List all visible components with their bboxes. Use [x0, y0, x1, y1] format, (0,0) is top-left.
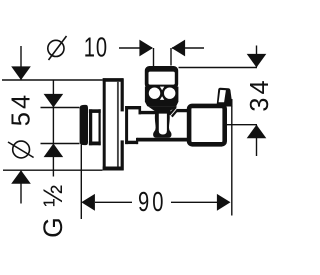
- valve head (bonnet) outer: [145, 66, 178, 89]
- extension line right: [231, 99, 233, 216]
- connector nut bottom edge: [89, 141, 101, 145]
- dim line top segment: [20, 46, 22, 80]
- diameter symbol: [48, 36, 67, 60]
- body tube top edge left: [139, 111, 156, 114]
- dim line: [52, 81, 54, 177]
- arrow pointing right at x=153: [139, 40, 153, 57]
- extension line top: [41, 107, 80, 109]
- body collar left edge: [125, 106, 128, 144]
- flange right edge lower: [121, 140, 124, 170]
- arrow pointing up at y=124.7: [247, 125, 267, 139]
- handle lever top face (white): [219, 90, 226, 102]
- svg-text:34: 34: [246, 77, 274, 111]
- extension line top: [179, 67, 258, 69]
- svg-text:9: 9: [138, 187, 149, 218]
- outlet block: [189, 106, 225, 144]
- valve head inner face: [149, 72, 175, 85]
- flange shading line: [117, 82, 119, 167]
- body tube top edge right: [169, 111, 171, 114]
- diameter symbol rotated (left): [8, 141, 34, 158]
- svg-text:0: 0: [152, 187, 163, 218]
- dim line bottom segment: [256, 125, 258, 156]
- extension line top: [2, 79, 103, 81]
- svg-text:G ½: G ½: [38, 183, 68, 238]
- chamfer diagonal inner: [169, 107, 176, 115]
- body bottom edge: [137, 138, 189, 142]
- chamfer diagonal outer: [172, 110, 178, 117]
- white notch top: [160, 87, 164, 91]
- arrow pointing left at x=81.3: [81, 194, 95, 211]
- svg-text:54: 54: [8, 92, 36, 126]
- body collar step top: [139, 106, 142, 114]
- body right section top edge: [176, 109, 189, 112]
- arrow pointing down at y=107.5: [44, 94, 64, 108]
- flange right edge upper: [121, 78, 124, 111]
- dim line right segment: [172, 47, 204, 49]
- stem slot: [159, 114, 167, 135]
- extension line bottom: [3, 169, 103, 171]
- arrow pointing left at x=171.5: [172, 40, 186, 57]
- extension line bottom: [225, 124, 257, 126]
- arrow pointing up at y=170.2: [11, 170, 31, 184]
- connector nut top edge: [89, 109, 101, 113]
- connector nut left edge: [89, 109, 92, 145]
- dim line left segment: [95, 201, 132, 203]
- svg-text:0: 0: [96, 33, 107, 64]
- arrow pointing right at x=230.5: [217, 194, 231, 211]
- body collar top edge: [125, 106, 141, 109]
- arrow pointing down at y=67.5: [247, 54, 267, 68]
- flange left edge: [103, 78, 106, 170]
- arrow pointing up at y=143.5: [44, 144, 64, 158]
- cartridge block: [145, 87, 179, 107]
- extension line left: [153, 48, 155, 66]
- dim line left segment: [119, 47, 152, 49]
- white notch bottom: [160, 96, 164, 100]
- dim line bottom segment: [20, 171, 22, 204]
- body collar step bottom: [136, 138, 138, 144]
- body collar bottom edge: [125, 141, 138, 144]
- extension line right: [170, 48, 172, 66]
- dim line top segment: [256, 46, 258, 68]
- cartridge circles: [149, 88, 160, 99]
- dim line right segment: [171, 201, 217, 203]
- handle lever silhouette: [217, 88, 233, 107]
- svg-text:1: 1: [84, 33, 95, 64]
- flange bottom edge: [103, 167, 124, 171]
- stem neck: [148, 106, 178, 138]
- connector nut right edge: [98, 109, 100, 145]
- extension line left: [80, 145, 82, 220]
- wall thread (solid black): [80, 105, 88, 145]
- extension line bottom: [41, 143, 80, 145]
- flange top edge: [103, 78, 124, 82]
- arrow pointing down at y=80: [11, 66, 31, 80]
